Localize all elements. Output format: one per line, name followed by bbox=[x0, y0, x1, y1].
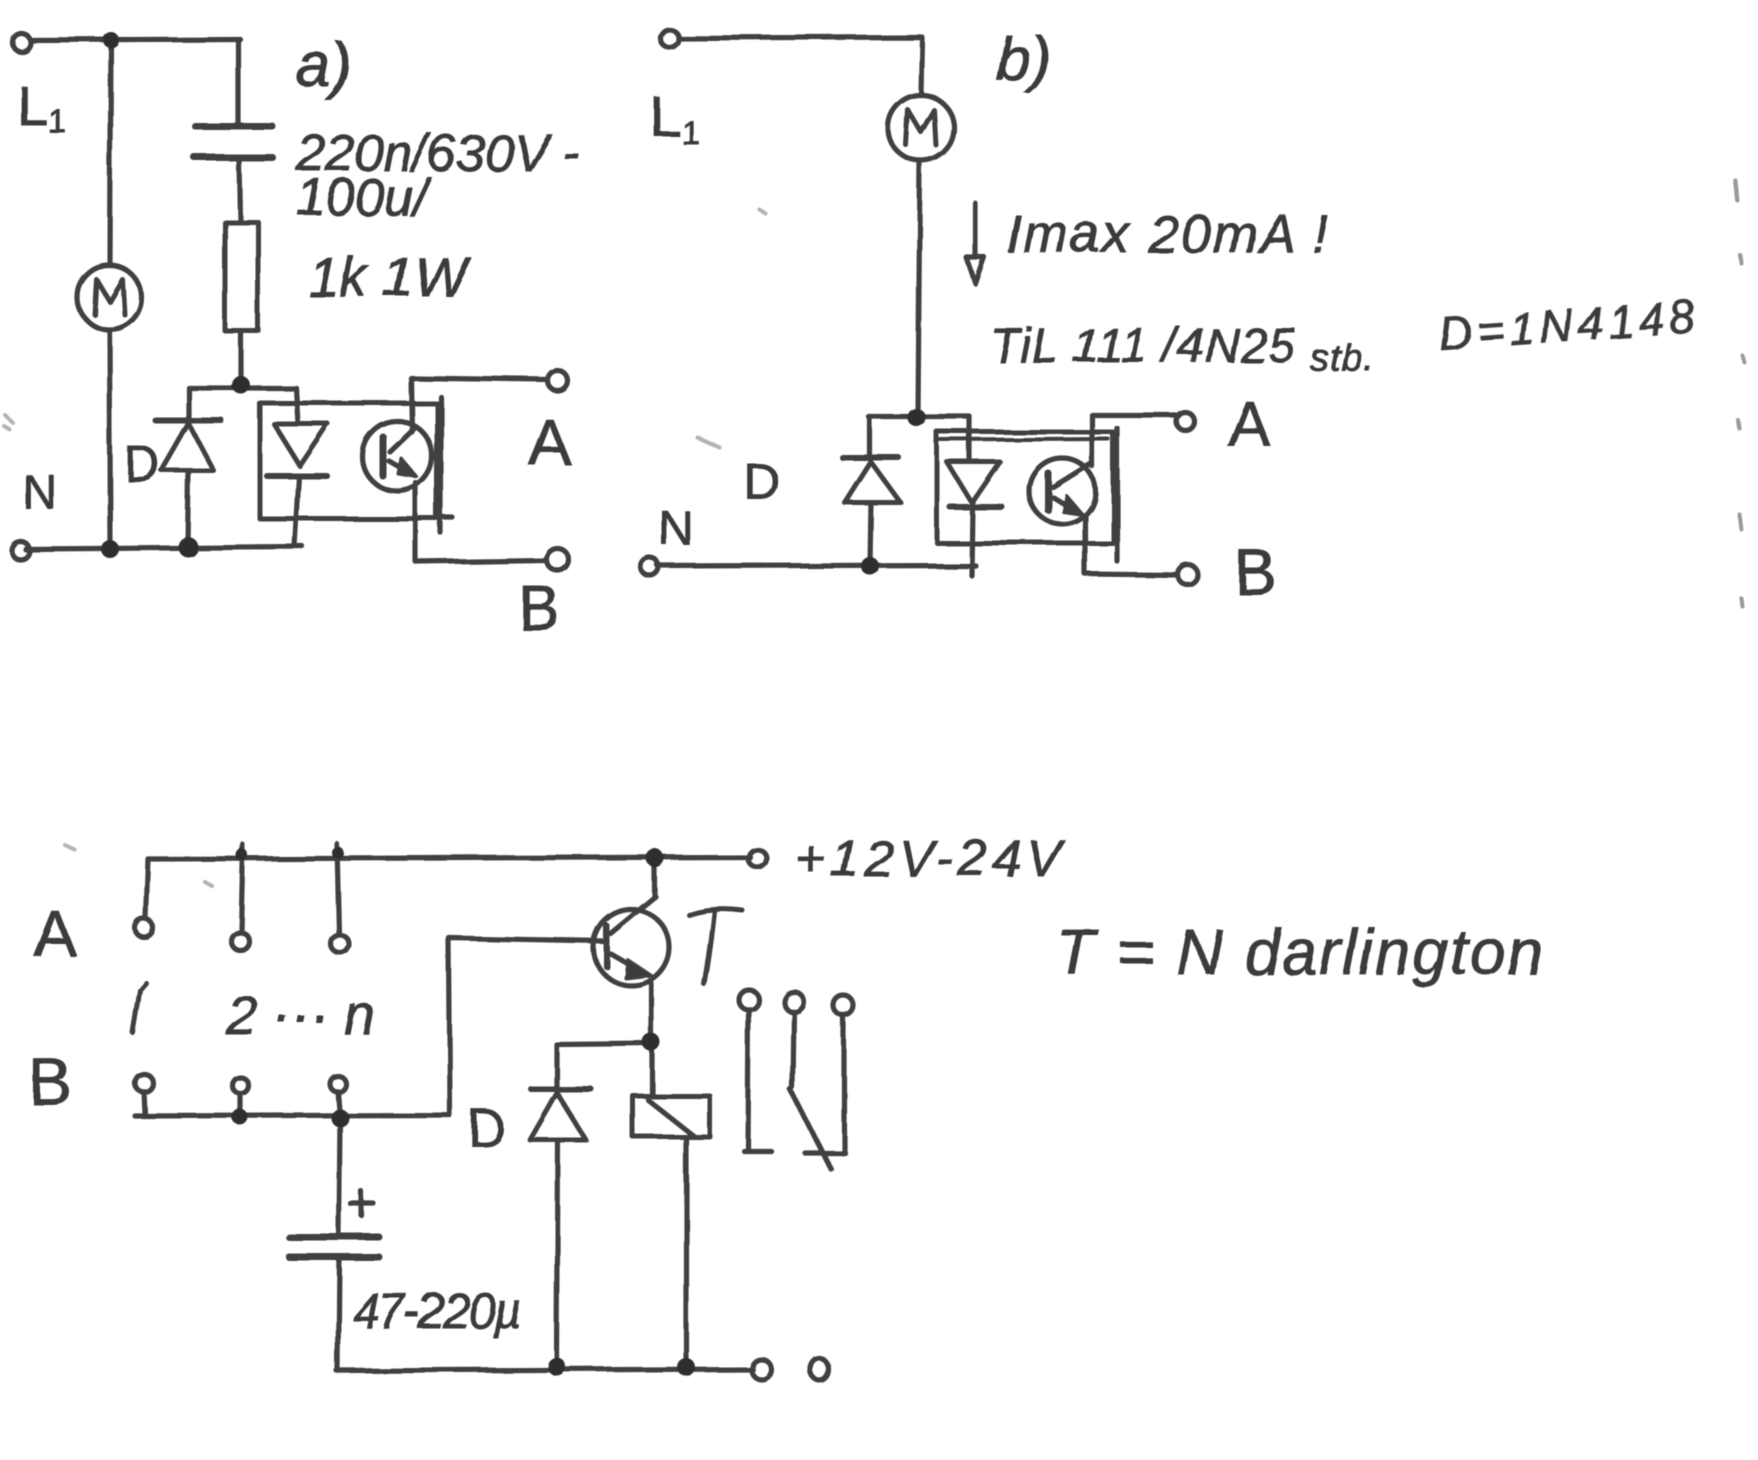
svg-text:Imax 20mA !: Imax 20mA ! bbox=[1006, 204, 1329, 264]
svg-text:N: N bbox=[22, 466, 57, 519]
svg-text:B: B bbox=[28, 1044, 72, 1118]
svg-text:T = N darlington: T = N darlington bbox=[1056, 916, 1545, 988]
svg-text:D: D bbox=[124, 436, 160, 492]
svg-text:A: A bbox=[528, 406, 571, 478]
svg-text:A: A bbox=[34, 898, 77, 970]
svg-text:A: A bbox=[1228, 388, 1271, 460]
svg-text:+12V-24V: +12V-24V bbox=[795, 830, 1066, 888]
svg-text:b): b) bbox=[996, 25, 1051, 94]
svg-text:D: D bbox=[468, 1100, 506, 1158]
svg-text:2 ··· n: 2 ··· n bbox=[225, 983, 375, 1046]
svg-text:1k 1W: 1k 1W bbox=[308, 245, 472, 308]
svg-text:47-220µ: 47-220µ bbox=[353, 1285, 521, 1339]
svg-text:100u/: 100u/ bbox=[297, 169, 432, 227]
svg-text:L1: L1 bbox=[16, 73, 66, 140]
svg-text:D=1N4148: D=1N4148 bbox=[1437, 290, 1701, 360]
svg-text:B: B bbox=[518, 572, 561, 644]
svg-text:B: B bbox=[1234, 536, 1277, 608]
svg-text:TiL 111 /4N25 stb.: TiL 111 /4N25 stb. bbox=[990, 320, 1376, 380]
svg-text:L1: L1 bbox=[650, 85, 700, 152]
svg-text:N: N bbox=[658, 502, 693, 555]
svg-text:D: D bbox=[743, 453, 779, 509]
svg-text:a): a) bbox=[296, 31, 351, 100]
